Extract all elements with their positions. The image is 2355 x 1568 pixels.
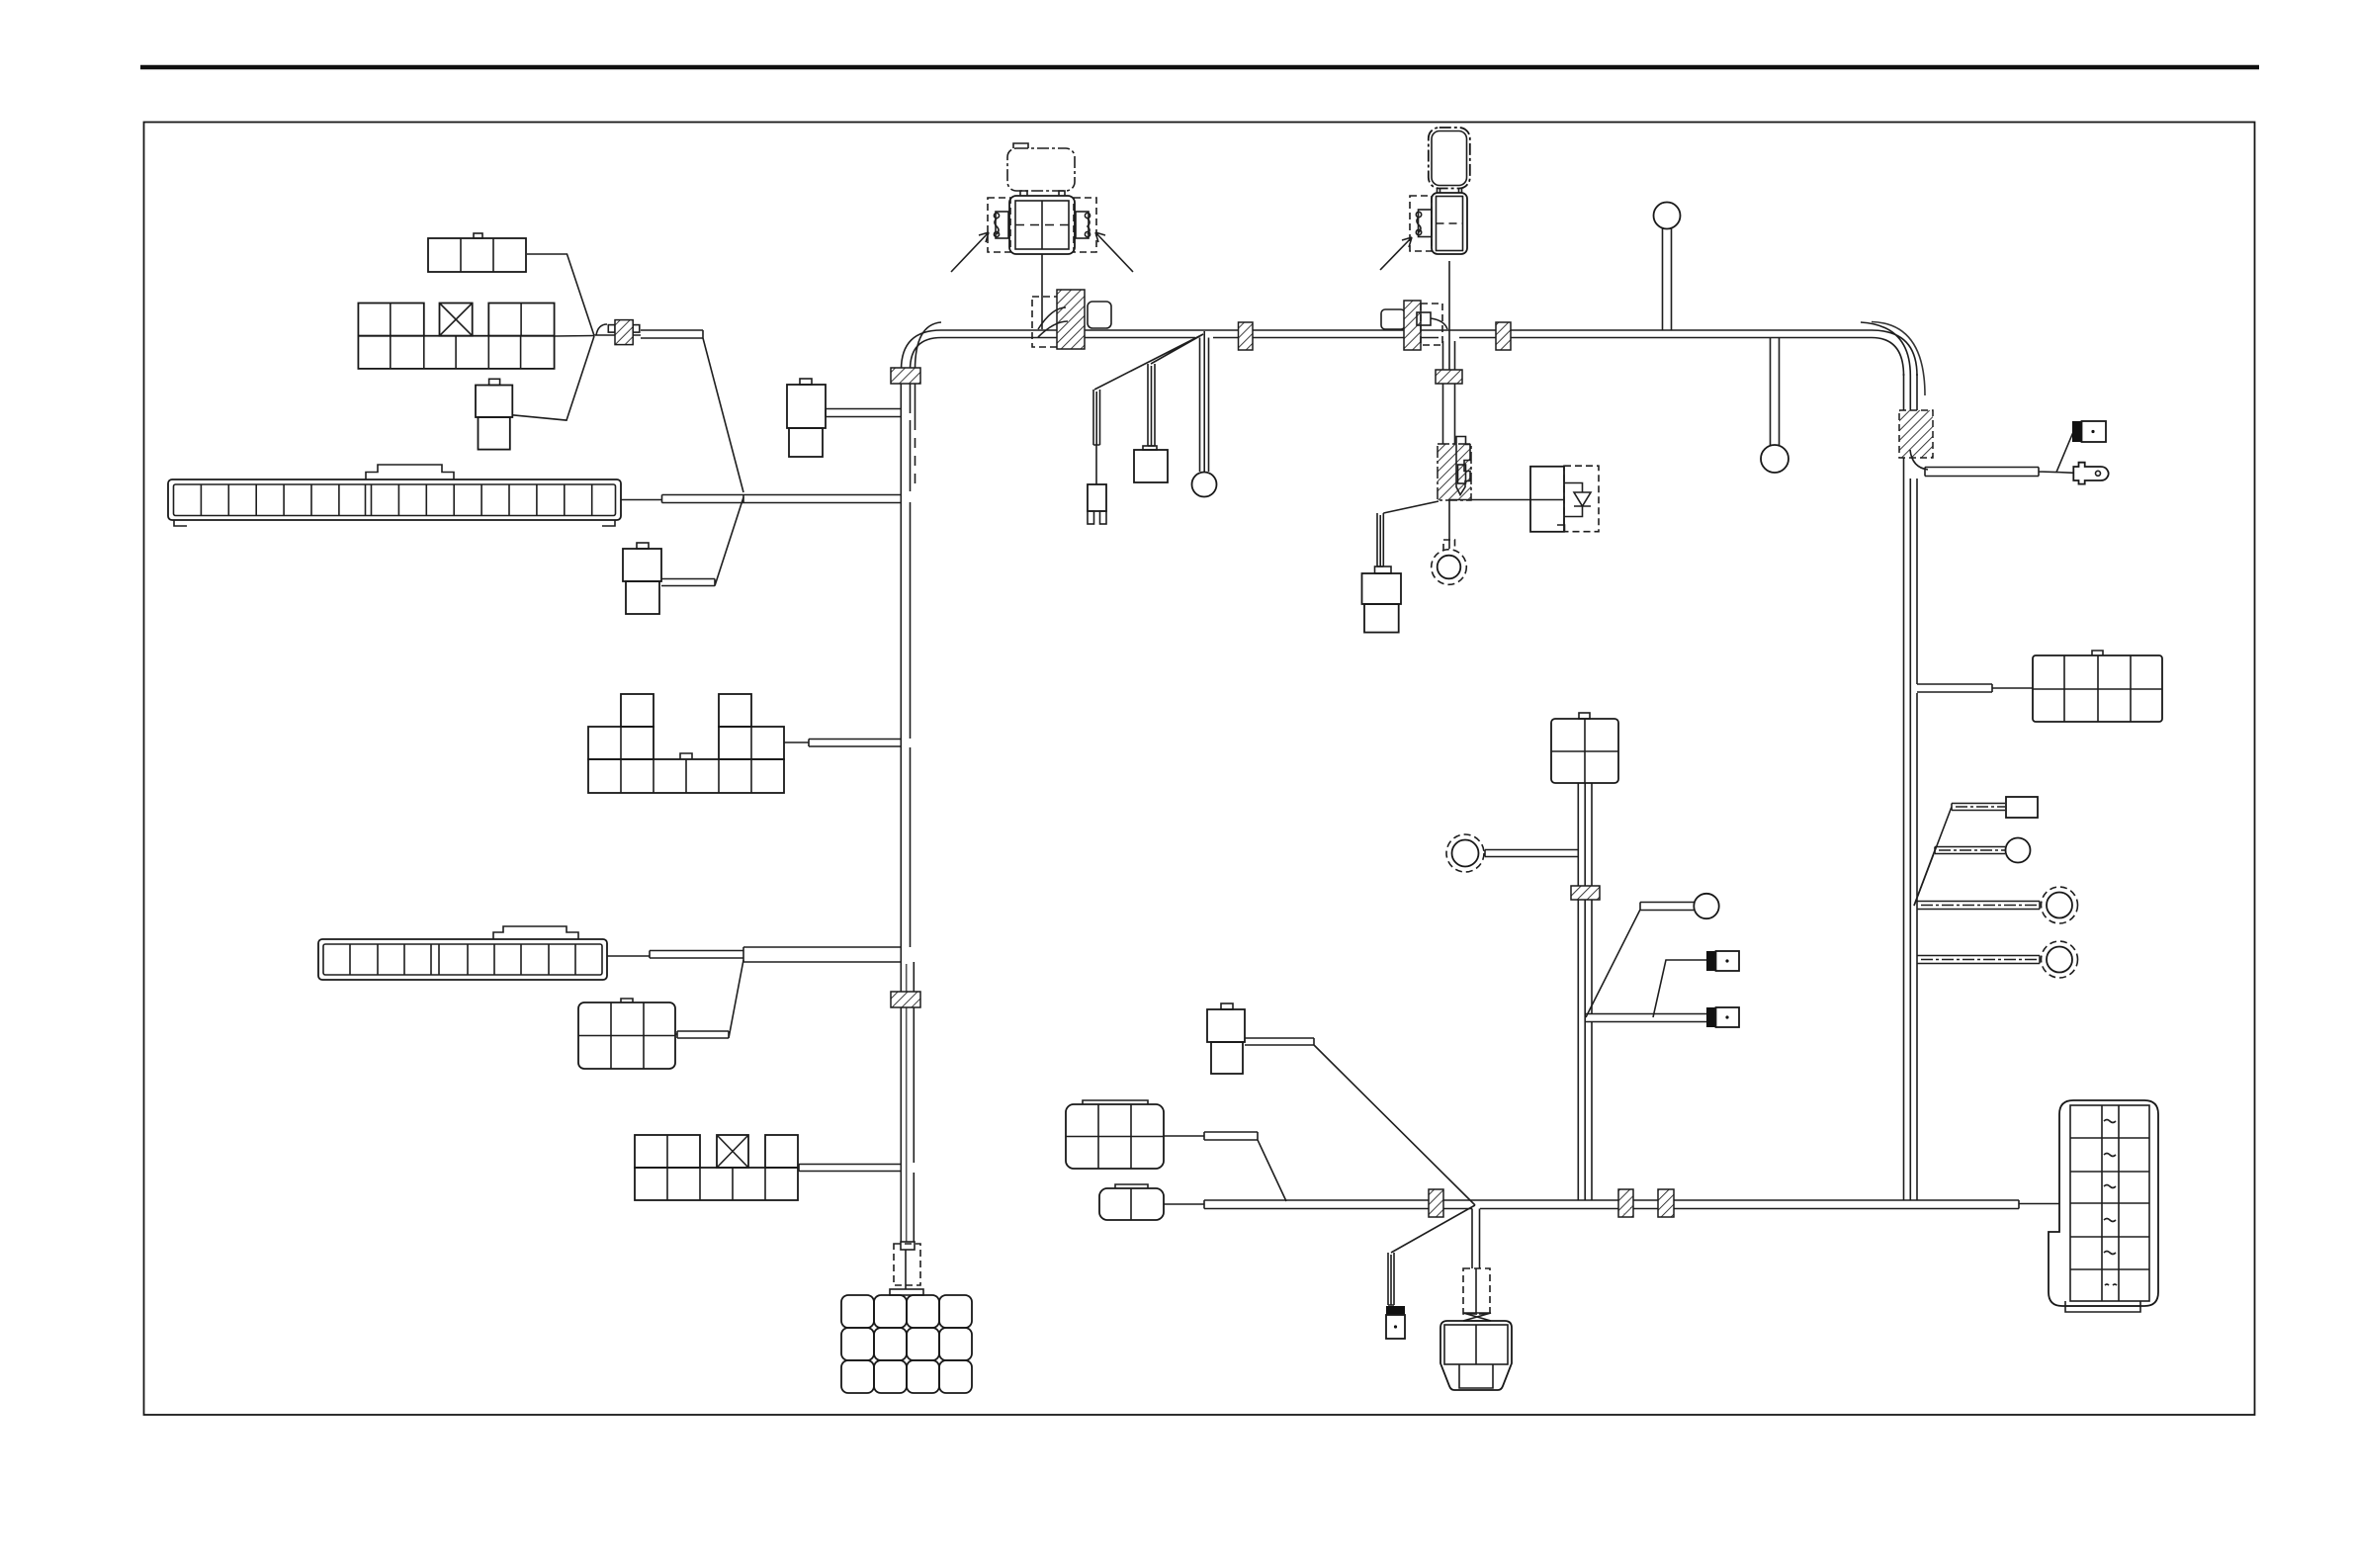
wire right trunk corner outer arc bbox=[1861, 322, 1910, 376]
connector C12 4-cell square bbox=[1009, 191, 1075, 254]
wire to ring terminal RT3 bbox=[1917, 902, 2040, 910]
wire block diagonal to pressure switch bbox=[1377, 501, 1439, 566]
wire slant to circle terminal bbox=[1914, 847, 2005, 907]
clamp bottom run 2 bbox=[1618, 1189, 1633, 1217]
terminal T4 bullet bbox=[2073, 463, 2108, 484]
grommet station at trunk x1050 bbox=[1032, 290, 1111, 349]
arrow right bbox=[1095, 232, 1133, 272]
wire C4 lead bbox=[621, 499, 662, 501]
terminal T6 black cap vertical bbox=[1386, 1306, 1405, 1339]
wire fan sleeve to left trunk bbox=[662, 495, 902, 503]
wire middle vertical trunk bbox=[1578, 783, 1592, 1200]
clamp left trunk upper bbox=[891, 368, 920, 384]
wire C6 to left trunk bbox=[826, 409, 902, 417]
wire C8 lead and sleeves to trunk bbox=[607, 947, 902, 962]
wire RT2 to middle trunk bbox=[1485, 850, 1579, 857]
fuse X cell of C10 bbox=[717, 1135, 748, 1168]
wire C9 lead sleeve diagonal bbox=[675, 960, 743, 1038]
clamp main trunk x1259 bbox=[1239, 322, 1254, 350]
arrow to C14 bbox=[1380, 237, 1412, 270]
connector C11 4x3 block bbox=[841, 1289, 972, 1393]
wire drop branch x1795 bbox=[1771, 338, 1780, 446]
wire left trunk inner strand hidden bbox=[915, 420, 916, 489]
ball terminal B2 bbox=[1654, 203, 1681, 229]
connector C5 two-stage bbox=[623, 543, 661, 614]
wire right trunk inner strand bbox=[1909, 376, 1911, 1200]
clamp station on trunk x1429 bbox=[1381, 301, 1447, 350]
wire ball antenna branch bbox=[1663, 228, 1672, 330]
relay R1 dash-dot body bbox=[1007, 143, 1075, 191]
top rule line bbox=[140, 65, 2259, 70]
wire junction to circle terminal bbox=[1586, 903, 1694, 1018]
wire drop triple to box terminal bbox=[1148, 364, 1155, 446]
wire drop to ball terminal bbox=[1200, 331, 1209, 472]
wire C7 lead and sleeve to trunk bbox=[784, 740, 902, 747]
clamp middle trunk bbox=[1571, 886, 1600, 900]
connector C7 tetris block bbox=[588, 694, 784, 793]
wire right corner outer arc bbox=[1872, 322, 1925, 396]
bowtie symbol bbox=[1463, 1313, 1491, 1321]
connector C8 strip 2 bbox=[318, 926, 607, 980]
connector C14 mirror base bbox=[1432, 189, 1467, 255]
connector C18 3x2 rounded bbox=[1066, 1100, 1164, 1169]
grommet dashed on drop bbox=[1463, 1268, 1490, 1315]
clamp bottom run 3 bbox=[1658, 1189, 1674, 1217]
connector C16 4x2 bbox=[2033, 651, 2162, 722]
terminal T2 black cap bbox=[1706, 1007, 1739, 1027]
ball terminal B1 bbox=[1192, 473, 1217, 497]
border frame bbox=[144, 123, 2255, 1416]
wire C5 sleeve and diagonal to fan bbox=[661, 497, 743, 586]
wire bottom run lead to fuse block bbox=[2019, 1203, 2059, 1205]
connector C15 2x2 on middle trunk bbox=[1551, 713, 1618, 783]
terminal T3 black cap bbox=[2072, 421, 2106, 442]
wire branch fan at x1217 bbox=[1094, 334, 1203, 390]
wire C3 lead bbox=[512, 336, 594, 420]
fuse X cell of C2 bbox=[440, 304, 473, 336]
wire C10 to left trunk bbox=[799, 1165, 902, 1172]
terminal detail box left of C12 bbox=[988, 198, 1010, 252]
terminal T5 small rect bbox=[2006, 797, 2038, 818]
connector pressure switch two-stage bbox=[1362, 566, 1402, 633]
connector C2 grid with X bbox=[358, 304, 554, 369]
terminal detail box left of C14 bbox=[1410, 196, 1432, 251]
clamp main trunk x1520 bbox=[1496, 322, 1511, 350]
wire bottom run bbox=[1204, 1200, 2019, 1209]
wire block to diode unit bbox=[1448, 499, 1530, 501]
connector C13 small box bbox=[1134, 446, 1168, 482]
connector C20 lamp socket bbox=[1440, 1321, 1512, 1390]
wire to ring terminal RT4 bbox=[1917, 956, 2040, 964]
wire branch to connector H bbox=[1917, 684, 2033, 692]
wire C17 sleeve and long diagonal to run bbox=[1245, 1038, 1475, 1205]
ring terminal RT2 bbox=[1446, 834, 1484, 872]
wire branch to side terminals bbox=[1925, 432, 2073, 477]
wire right trunk corner bbox=[1872, 330, 1917, 376]
clamp right trunk corner block bbox=[1899, 410, 1933, 470]
ring terminal RT3 bbox=[2042, 887, 2078, 923]
wire C19 lead bbox=[1164, 1203, 1204, 1205]
wire dashdot core 3 bbox=[1921, 905, 2040, 907]
wire left trunk inner strand bbox=[915, 370, 916, 420]
terminal fork bbox=[1088, 484, 1106, 511]
wire junction drop to lamp connector bbox=[1472, 1209, 1480, 1269]
arrow left bbox=[951, 232, 989, 272]
wire slant to small rect terminal bbox=[1914, 804, 2005, 907]
wire right vertical trunk bbox=[1904, 374, 1918, 1200]
connector C17 two-stage bbox=[1207, 1003, 1245, 1074]
ball terminal B3 bbox=[1761, 445, 1788, 473]
grommet dashed at left trunk end bbox=[894, 1242, 920, 1289]
wire branch to upper cap terminal bbox=[1653, 960, 1706, 1017]
connector C1 3-cell bbox=[428, 233, 526, 272]
wire left vertical trunk bbox=[901, 368, 914, 1242]
wire main top trunk outer line bbox=[941, 329, 1872, 331]
mirror M1 dash-dot rounded bbox=[1429, 128, 1470, 189]
diode unit D1 bbox=[1530, 466, 1599, 532]
wire left trunk center strand lower bbox=[906, 964, 908, 1242]
wire left trunk corner inner strand arc bbox=[916, 322, 942, 370]
wire drop triple to fork terminal bbox=[1093, 390, 1100, 484]
wire main top trunk inner line bbox=[941, 337, 1872, 339]
circle terminal B4 bbox=[1694, 894, 1718, 918]
ring terminal RT4 bbox=[2042, 941, 2078, 978]
connector C4 long strip bbox=[168, 465, 621, 526]
connector C10 block with X fuse bbox=[635, 1135, 798, 1200]
wire C12 drop to trunk bbox=[1041, 254, 1043, 329]
wire dashdot core 4 bbox=[1921, 959, 2040, 961]
wire C1 lead bbox=[527, 254, 594, 336]
wire block down to ring bbox=[1448, 500, 1450, 549]
grommet block hatched bbox=[1438, 437, 1471, 501]
clamp on drop wire bbox=[1436, 370, 1462, 384]
wire clamp to fan sleeve bbox=[641, 330, 743, 492]
wire left trunk corner bbox=[902, 330, 942, 370]
ring terminal RT1 bbox=[1432, 540, 1467, 584]
fuse block F1 bbox=[2049, 1100, 2158, 1312]
clamp bottom run 1 bbox=[1429, 1189, 1443, 1217]
wire junction diagonal to cap terminal bbox=[1388, 1205, 1475, 1305]
circle terminal B5 bbox=[2006, 838, 2031, 863]
clamp left trunk lower bbox=[891, 992, 920, 1007]
wire C18 lead sleeve diagonal bbox=[1164, 1132, 1286, 1201]
clamp on junction wire bbox=[594, 320, 641, 345]
connector C9 3x2 bbox=[578, 999, 675, 1069]
wire drop below trunk to block bbox=[1443, 341, 1455, 444]
connector C3 two-stage bbox=[476, 379, 512, 449]
wire junction horizontal pair bbox=[1586, 1014, 1706, 1022]
wire C14 drop to trunk bbox=[1448, 261, 1450, 371]
wire C2 lead bbox=[555, 335, 594, 338]
connector C19 2x1 rounded bbox=[1099, 1184, 1164, 1220]
wire dashdot core 1 bbox=[1956, 806, 2005, 808]
connector C6 two-stage at trunk bbox=[787, 379, 826, 457]
wire dashdot core 2 bbox=[1939, 849, 2005, 851]
wire middle trunk center strand bbox=[1584, 783, 1586, 1200]
terminal T1 black cap bbox=[1706, 951, 1739, 971]
terminal detail box right of C12 bbox=[1074, 198, 1096, 252]
